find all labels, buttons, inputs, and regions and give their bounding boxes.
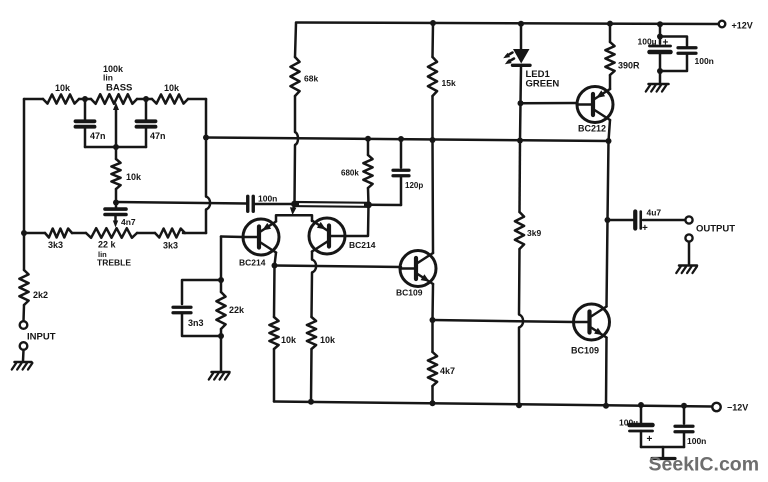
wire emitter node to 680k node (thick, hollow core): [295, 201, 369, 208]
wire emitter box feed: [290, 204, 297, 215]
svg-text:+: +: [642, 223, 648, 234]
svg-text:4n7: 4n7: [121, 217, 136, 227]
wire tone bottom row left stub: [24, 232, 45, 235]
LED emission arrows: [503, 53, 514, 65]
wire 100n to emitter node: [254, 203, 295, 206]
ground (input): [12, 362, 33, 370]
wire tone bottom row right stub: [183, 232, 206, 235]
resistor 390R: [605, 24, 640, 89]
terminal OUTPUT: [685, 216, 692, 223]
wire 3k9 to -12V rail (hops over base wire): [519, 315, 523, 406]
node BC109 emitter rail: [603, 403, 609, 409]
wire LED anode: [520, 24, 523, 50]
transistor BC109 (first, NPN): [396, 251, 436, 298]
svg-text:−12V: −12V: [727, 403, 748, 413]
wire output ground stub: [688, 242, 691, 264]
node BC212 collector on feedback bus: [606, 138, 612, 144]
wire BC212 collector down: [608, 120, 611, 220]
ground (top supply): [646, 84, 669, 92]
wire 68k to emitter node (with hop over feedback wire): [295, 96, 299, 204]
LED1 GREEN diode: [513, 49, 560, 103]
svg-text:lin: lin: [103, 73, 113, 83]
capacitor 47n (left): [76, 99, 106, 147]
wire: [137, 232, 155, 235]
node emitter feed: [291, 201, 298, 208]
resistor 68k: [290, 23, 318, 96]
wire tone output to 100n: [116, 202, 247, 204]
wire +12V supply rail: [296, 23, 718, 25]
resistor 680k: [341, 139, 373, 205]
capacitor 3n3: [173, 280, 221, 336]
node collector bus left: [272, 263, 278, 269]
wire BC109 output emitter: [605, 338, 608, 406]
resistor 10k (left of pair): [269, 266, 297, 402]
svg-text:3k3: 3k3: [48, 240, 63, 250]
node LED/3k9 junction: [517, 138, 523, 144]
resistor 3k3 (left): [45, 229, 72, 251]
watermark SeekIC.com: [649, 454, 760, 476]
capacitor 100u (bottom): [619, 405, 653, 447]
wire BC212 base: [521, 102, 578, 105]
wire BC109 collector up: [431, 140, 434, 253]
svg-text:10k: 10k: [126, 172, 142, 182]
wire LED line down to feedback bus: [519, 103, 522, 140]
node feedback takeoff: [203, 135, 209, 141]
capacitor 100u (top): [638, 24, 671, 70]
node bass pot right: [143, 96, 149, 102]
bass wiper arrow: [113, 103, 119, 148]
svg-text:3k9: 3k9: [527, 228, 541, 238]
svg-text:GREEN: GREEN: [526, 79, 560, 90]
svg-text:+12V: +12V: [732, 21, 753, 31]
wire feedback bus: [206, 138, 609, 142]
wire BC214 right collector drop (hops over collector bus): [312, 252, 316, 273]
svg-text:INPUT: INPUT: [27, 332, 56, 343]
wire BC109 output collector: [607, 220, 608, 307]
node tone bottom left: [21, 230, 27, 236]
svg-text:10k: 10k: [320, 335, 336, 345]
svg-text:22k: 22k: [229, 305, 245, 315]
resistor 3k3 (right): [155, 229, 185, 251]
wire: [72, 232, 86, 235]
node 3k9 rail: [516, 402, 522, 408]
node decoupling bottom join: [657, 68, 663, 74]
svg-text:390R: 390R: [618, 61, 640, 71]
node 680k top: [365, 136, 371, 142]
terminal -12V: [712, 403, 748, 413]
svg-text:15k: 15k: [442, 78, 456, 88]
svg-text:BC109: BC109: [571, 346, 599, 356]
wire: [137, 98, 152, 101]
svg-text:22 k: 22 k: [98, 240, 117, 250]
resistor 10k (bass right): [152, 83, 188, 104]
transistor BC214 (left, PNP): [239, 219, 279, 268]
node 680k bottom: [365, 201, 372, 208]
resistor 4k7: [428, 320, 455, 404]
wire tone top row left stub: [24, 98, 43, 101]
wire 22k to ground: [220, 336, 223, 372]
node decoupling top join: [657, 34, 663, 40]
resistor 3k9: [515, 141, 542, 315]
wire decoupling ground stub: [659, 71, 662, 83]
ground (output): [676, 266, 697, 274]
node BC212 base tap: [518, 100, 524, 106]
svg-text:OUTPUT: OUTPUT: [696, 224, 735, 235]
svg-text:10k: 10k: [281, 335, 297, 345]
resistor 10k (bass left): [43, 83, 79, 104]
wire BC109 emitter down: [431, 284, 434, 320]
potentiometer 22k lin TREBLE: [86, 228, 137, 267]
label INPUT: [27, 332, 56, 343]
node 22k top tap: [218, 277, 224, 283]
svg-text:10k: 10k: [164, 83, 180, 93]
node bass wiper junction: [113, 144, 119, 150]
resistor 10k (right of pair): [307, 273, 336, 402]
capacitor 100n (bottom): [675, 406, 706, 447]
svg-text:3n3: 3n3: [188, 318, 204, 328]
wire 680k/120p bottom join: [369, 204, 402, 207]
capacitor 4n7: [105, 203, 136, 228]
node 22k bottom tap: [218, 333, 224, 339]
wire BC214 left base: [221, 237, 243, 281]
svg-text:+: +: [663, 38, 669, 49]
node 120p top: [398, 136, 404, 142]
wire bias to output transistor base: [433, 320, 575, 322]
label OUTPUT: [696, 224, 735, 235]
resistor 15k: [428, 23, 456, 140]
svg-text:100n: 100n: [687, 436, 706, 446]
svg-text:TREBLE: TREBLE: [97, 258, 131, 268]
svg-text:47n: 47n: [150, 131, 166, 141]
wire BC214 right base to 680k node: [345, 205, 369, 236]
svg-text:BC109: BC109: [396, 288, 423, 298]
node 390R top: [607, 21, 613, 27]
wire tone network left vertical: [23, 99, 26, 233]
svg-text:100n: 100n: [695, 56, 714, 66]
node bass pot left: [82, 96, 88, 102]
wire collector bus: [275, 266, 402, 268]
svg-text:10k: 10k: [55, 83, 71, 93]
node 100n bottom tap: [681, 403, 687, 409]
svg-text:BC212: BC212: [578, 124, 606, 134]
wire: [22, 350, 25, 361]
node emitter/4k7 junction: [430, 317, 436, 323]
resistor 22k: [216, 280, 245, 336]
transistor BC214 (right, PNP): [309, 218, 376, 254]
capacitor 120p: [393, 139, 423, 205]
ground (bottom supply): [652, 447, 675, 459]
svg-text:68k: 68k: [304, 74, 318, 84]
svg-text:120p: 120p: [405, 181, 423, 190]
wire -12V supply rail: [274, 402, 712, 407]
wire bottom decoupling join: [641, 446, 684, 449]
svg-text:SeekIC.com: SeekIC.com: [649, 454, 760, 476]
svg-text:4k7: 4k7: [440, 366, 455, 376]
node 15k bottom on feedback bus: [430, 137, 436, 143]
terminal input top: [20, 321, 28, 329]
svg-text:680k: 680k: [341, 169, 359, 178]
wire 47n bottom joining: [85, 146, 146, 149]
svg-text:47n: 47n: [90, 131, 106, 141]
svg-text:BC214: BC214: [349, 240, 376, 250]
svg-text:3k3: 3k3: [163, 241, 178, 251]
wire tone top row right stub: [188, 98, 206, 101]
capacitor 100n (coupling): [248, 194, 278, 212]
transistor BC212 (PNP): [577, 87, 613, 134]
capacitor 4u7 (output): [608, 208, 686, 235]
terminal input ground: [20, 342, 28, 350]
svg-text:+: +: [647, 434, 653, 445]
svg-text:BASS: BASS: [106, 83, 132, 94]
svg-text:4u7: 4u7: [647, 208, 662, 218]
svg-text:BC214: BC214: [239, 258, 266, 268]
transistor BC109 (output, NPN): [571, 304, 610, 356]
treble wiper arrow: [113, 216, 118, 228]
svg-text:100µ: 100µ: [619, 418, 638, 428]
svg-text:2k2: 2k2: [33, 290, 48, 300]
ground (22k): [209, 372, 230, 380]
node 10k/4n7 junction: [113, 200, 119, 206]
capacitor 100n (top): [660, 37, 714, 72]
node 100u top tap: [657, 21, 663, 27]
node 15k top: [430, 20, 436, 26]
wire BC214 left collector drop: [275, 253, 277, 266]
node 4k7 bottom: [430, 400, 436, 406]
terminal +12V: [719, 21, 753, 31]
node 10k right bottom: [308, 399, 314, 405]
terminal output ground: [685, 234, 692, 241]
wire emitter box: [276, 215, 312, 221]
resistor 10k (middle): [111, 147, 142, 202]
node LED top: [518, 21, 524, 27]
resistor 2k2: [19, 233, 48, 321]
capacitor 47n (right): [137, 99, 166, 147]
potentiometer 100k lin BASS: [91, 64, 137, 104]
wire tone network right vertical (hops over 100n wire): [206, 99, 210, 233]
node 100u bottom tap: [638, 402, 644, 408]
node output coupling junction: [605, 217, 611, 223]
wire: [79, 98, 91, 101]
svg-text:100µ: 100µ: [638, 37, 657, 47]
svg-text:100n: 100n: [258, 194, 277, 204]
